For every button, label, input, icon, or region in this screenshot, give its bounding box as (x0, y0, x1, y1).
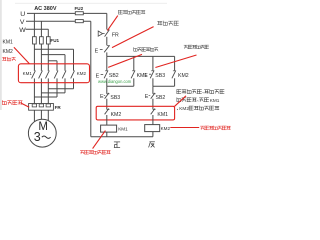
svg-text:KM2: KM2 (179, 106, 189, 111)
svg-text:V: V (20, 19, 25, 26)
svg-text:AC 380V: AC 380V (34, 6, 57, 12)
svg-text:SB2: SB2 (156, 95, 166, 101)
svg-text:FU2: FU2 (75, 6, 84, 11)
svg-text:E: E (95, 49, 99, 55)
svg-text:KM1: KM1 (118, 126, 128, 131)
svg-text:E: E (100, 94, 104, 100)
svg-text:KM1: KM1 (210, 98, 220, 103)
svg-text:KM2: KM2 (3, 49, 14, 55)
svg-text:KM2: KM2 (161, 126, 171, 131)
svg-text:KM1: KM1 (3, 40, 14, 46)
svg-text:W: W (19, 27, 26, 34)
svg-text:E: E (145, 94, 149, 100)
svg-text:FR: FR (55, 105, 62, 110)
svg-text:KM2: KM2 (178, 73, 189, 79)
svg-text:SB3: SB3 (155, 73, 165, 79)
svg-text:KM1: KM1 (23, 71, 33, 76)
svg-text:FU1: FU1 (50, 38, 59, 43)
svg-text:KM1: KM1 (157, 112, 168, 118)
svg-text:KM2: KM2 (77, 71, 87, 76)
svg-text:E: E (144, 73, 148, 79)
svg-text:U: U (20, 11, 25, 18)
svg-text:www.diangon.com: www.diangon.com (98, 79, 132, 84)
svg-text:SB2: SB2 (109, 73, 119, 79)
svg-text:KM2: KM2 (111, 112, 122, 118)
svg-text:SB3: SB3 (110, 95, 120, 101)
svg-text:3: 3 (34, 130, 41, 144)
svg-text:FR: FR (112, 32, 119, 38)
